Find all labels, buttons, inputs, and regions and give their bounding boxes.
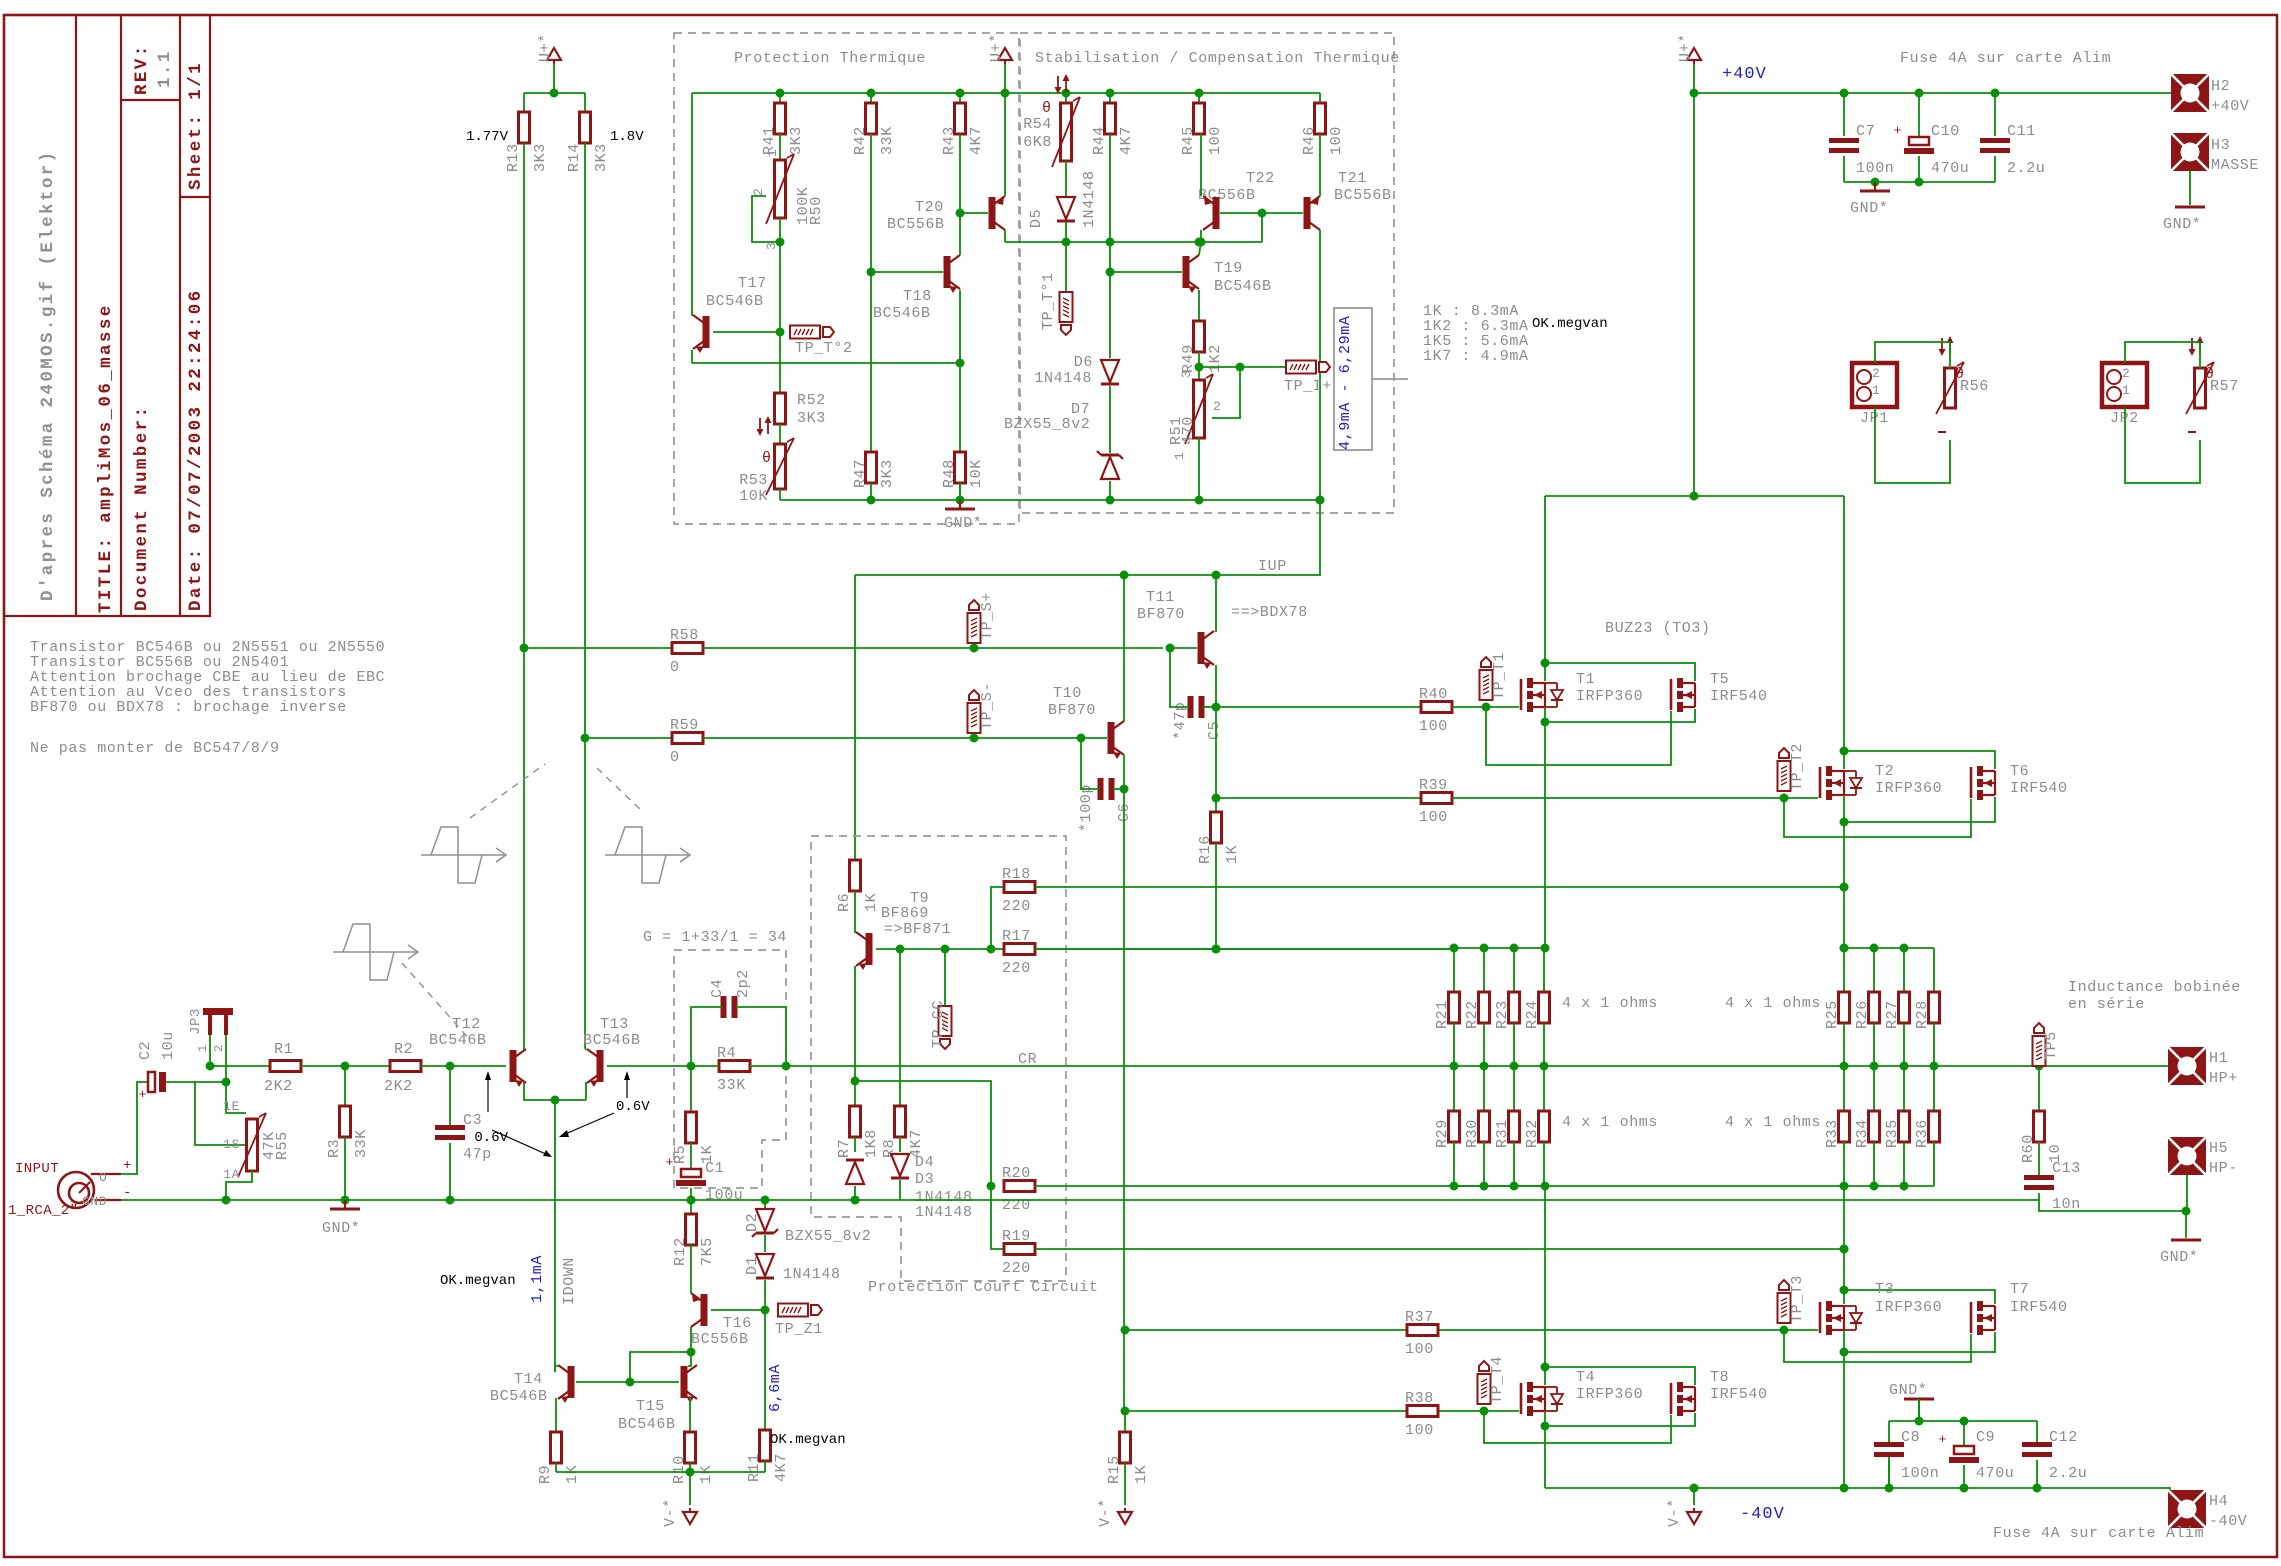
- svg-text:TP_T°1: TP_T°1: [1040, 272, 1057, 330]
- svg-text:1A: 1A: [223, 1167, 240, 1182]
- svg-text:220: 220: [1002, 898, 1031, 915]
- wire: [523, 93, 525, 112]
- power symbol V-* (R15): [1118, 1512, 1132, 1524]
- diode D8 (under R7): [854, 1137, 856, 1152]
- svg-text:R35: R35: [1884, 1119, 1901, 1148]
- svg-text:R5: R5: [672, 1145, 689, 1164]
- thermistor R56: [1941, 338, 1943, 354]
- svg-text:HP-: HP-: [2209, 1160, 2238, 1177]
- svg-text:GND*: GND*: [1889, 1382, 1927, 1399]
- svg-text:6K8: 6K8: [1023, 134, 1052, 151]
- resistor R28: [1933, 948, 1935, 992]
- svg-text:100: 100: [1419, 718, 1448, 735]
- wire +40V rail: [1693, 64, 1695, 496]
- wire R12 to T16: [690, 1245, 692, 1290]
- resistor R9: [551, 1432, 562, 1463]
- wire T3-T7 top: [1844, 1290, 1995, 1304]
- svg-text:R52: R52: [797, 392, 826, 409]
- svg-text:1K8: 1K8: [863, 1129, 880, 1158]
- wire T13 collector: [584, 143, 586, 1048]
- svg-text:TP_Z1: TP_Z1: [775, 1321, 823, 1338]
- svg-text:1N4148: 1N4148: [1034, 370, 1092, 387]
- wire R39 to T2 gate: [1452, 797, 1818, 799]
- wire T3 column: [1843, 1186, 1845, 1304]
- wire R51 down: [1198, 438, 1200, 500]
- resistor R37: [1407, 1325, 1438, 1336]
- wire C6 left: [1081, 738, 1099, 789]
- svg-text:TITLE: ampliMos_06_masse: TITLE: ampliMos_06_masse: [96, 303, 116, 613]
- wire T4 gate: [1484, 1410, 1519, 1412]
- svg-text:1N4148: 1N4148: [1081, 170, 1098, 228]
- svg-text:H1: H1: [2209, 1050, 2228, 1067]
- svg-text:OK.megvan: OK.megvan: [1532, 316, 1608, 332]
- svg-text:1N4148: 1N4148: [915, 1204, 973, 1221]
- svg-text:C2: C2: [137, 1041, 154, 1060]
- svg-text:D'apres Schéma 240MOS.gif (Ele: D'apres Schéma 240MOS.gif (Elektor): [38, 149, 58, 601]
- svg-text:IUP: IUP: [1258, 558, 1287, 575]
- wire R16 down: [1215, 843, 1217, 949]
- svg-text:+: +: [139, 1087, 147, 1102]
- svg-text:GND*: GND*: [944, 515, 982, 532]
- wire box left: [691, 93, 693, 310]
- svg-text:1.77V: 1.77V: [466, 129, 509, 145]
- svg-text:R31: R31: [1494, 1119, 1511, 1148]
- wire T3 source down: [1843, 1352, 1845, 1488]
- pad H5: [2168, 1137, 2206, 1175]
- svg-text:4 x 1 ohms: 4 x 1 ohms: [1725, 995, 1821, 1012]
- svg-text:O: O: [99, 1170, 107, 1185]
- test point TP_S-: [968, 703, 981, 733]
- wire T2 column: [1843, 496, 1845, 769]
- svg-text:Stabilisation / Compensation T: Stabilisation / Compensation Thermique: [1035, 50, 1400, 67]
- wire R1 row: [210, 1065, 270, 1067]
- svg-text:+40V: +40V: [1722, 65, 1767, 84]
- svg-text:Fuse 4A sur carte Alim: Fuse 4A sur carte Alim: [1900, 50, 2111, 67]
- svg-text:1: 1: [2122, 383, 2130, 398]
- trimmer R53 (thermistor): [779, 424, 781, 444]
- svg-text:2: 2: [212, 1044, 226, 1052]
- svg-text:==>BDX78: ==>BDX78: [1231, 604, 1308, 621]
- wire JP3 pins: [209, 1035, 211, 1066]
- wire pot taps: [195, 1082, 246, 1145]
- wire R59 row: [585, 737, 672, 739]
- svg-text:R30: R30: [1464, 1119, 1481, 1148]
- capacitor C2 (electrolytic): [148, 1072, 155, 1092]
- svg-text:T15: T15: [636, 1398, 665, 1415]
- svg-text:R11: R11: [746, 1453, 763, 1482]
- svg-text:470: 470: [1180, 416, 1197, 445]
- svg-text:2K2: 2K2: [384, 1078, 413, 1095]
- svg-text:10K: 10K: [968, 459, 985, 488]
- svg-text:R29: R29: [1434, 1119, 1451, 1148]
- svg-text:R59: R59: [670, 717, 699, 734]
- svg-text:C12: C12: [2049, 1429, 2078, 1446]
- svg-text:IRFP360: IRFP360: [1875, 1299, 1942, 1316]
- svg-text:100u: 100u: [705, 1187, 743, 1204]
- wire T2 source: [1843, 795, 1845, 822]
- resistor R44: [1109, 93, 1111, 103]
- svg-text:JP3: JP3: [188, 1008, 204, 1035]
- wire -40V rail: [1545, 1488, 2170, 1492]
- svg-text:T17: T17: [738, 275, 767, 292]
- svg-text:4,9mA - 6,29mA: 4,9mA - 6,29mA: [1337, 316, 1354, 450]
- svg-text:R49: R49: [1180, 344, 1197, 373]
- svg-text:BC546B: BC546B: [1214, 278, 1272, 295]
- wire C4 loop: [691, 1007, 722, 1066]
- wire T16 collector: [690, 1327, 692, 1352]
- resistor R43: [959, 93, 961, 103]
- wire T1 column: [1544, 496, 1546, 681]
- resistor R42: [870, 93, 872, 103]
- svg-text:R1: R1: [274, 1041, 293, 1058]
- test point TP_T2: [1778, 761, 1791, 791]
- wire R40 to gates: [1452, 706, 1519, 708]
- capacitor C1 (electrolytic): [690, 1143, 692, 1168]
- svg-text:Sheet: 1/1: Sheet: 1/1: [186, 61, 206, 190]
- wire R17 right: [1035, 948, 1454, 950]
- wire C5 left to base node: [1170, 648, 1189, 707]
- wire T21 collector to IUP: [855, 230, 1320, 575]
- resistor R60: [2038, 1066, 2040, 1111]
- wire T2 source down: [1843, 822, 1845, 948]
- pad H3: [2171, 133, 2209, 171]
- svg-text:C13: C13: [2052, 1160, 2081, 1177]
- svg-text:R21: R21: [1434, 1000, 1451, 1029]
- svg-text:1N4148: 1N4148: [783, 1266, 841, 1283]
- wire T12 collector: [523, 143, 525, 1048]
- jumper JP2: [2102, 363, 2147, 407]
- svg-text:T5: T5: [1710, 671, 1729, 688]
- wire T9 base: [876, 948, 900, 950]
- svg-text:D1: D1: [744, 1256, 761, 1275]
- svg-text:T3: T3: [1875, 1281, 1894, 1298]
- power symbol V-*: [689, 1472, 691, 1505]
- svg-text:Inductance bobinée: Inductance bobinée: [2068, 979, 2241, 996]
- svg-text:Protection Thermique: Protection Thermique: [734, 50, 926, 67]
- wire R58 row: [524, 647, 672, 649]
- svg-text:R6: R6: [836, 893, 853, 912]
- svg-text:220: 220: [1002, 960, 1031, 977]
- resistor R7: [854, 1081, 856, 1106]
- test point TP_CC: [944, 949, 946, 1006]
- svg-text:R34: R34: [1854, 1119, 1871, 1148]
- svg-text:4 x 1 ohms: 4 x 1 ohms: [1562, 995, 1658, 1012]
- clipping icon C: [333, 951, 416, 953]
- wire emitter rail: [692, 362, 960, 364]
- resistor R11: [760, 1430, 771, 1461]
- wire T13 collector: [585, 1048, 586, 1050]
- wire D1 to TP_Z1: [764, 1280, 766, 1310]
- resistor R25: [1843, 948, 1845, 992]
- wire R3 down: [344, 1137, 346, 1200]
- wire +40V drop: [1545, 495, 1844, 497]
- wire jumper loop: [1875, 342, 1950, 368]
- svg-text:CR: CR: [1018, 1051, 1037, 1068]
- svg-text:2: 2: [1213, 399, 1221, 414]
- svg-text:D5: D5: [1028, 209, 1045, 228]
- wire T1 source: [1544, 707, 1546, 722]
- svg-text:TP_T°2: TP_T°2: [795, 340, 853, 357]
- resistor R18: [991, 887, 1004, 949]
- svg-text:100: 100: [1328, 126, 1345, 155]
- svg-text:R10: R10: [671, 1455, 688, 1484]
- svg-text:R4: R4: [717, 1045, 736, 1062]
- svg-text:T14: T14: [514, 1371, 543, 1388]
- svg-text:100n: 100n: [1901, 1465, 1939, 1482]
- svg-text:BZX55_8v2: BZX55_8v2: [785, 1228, 871, 1245]
- wire T19 collector: [1199, 242, 1201, 255]
- svg-text:0.6V: 0.6V: [474, 1130, 508, 1146]
- svg-text:en série: en série: [2068, 996, 2145, 1013]
- test point TP_T°2: [790, 326, 820, 339]
- resistor R23: [1513, 948, 1515, 992]
- trimmer R54 (thermistor): [1065, 93, 1067, 103]
- svg-text:BC546B: BC546B: [618, 1416, 676, 1433]
- svg-text:+: +: [123, 1158, 132, 1174]
- svg-text:1.8V: 1.8V: [610, 129, 644, 145]
- wire R4 right to main: [786, 1065, 1454, 1067]
- wire C1 down: [690, 1188, 692, 1200]
- Protection Court Circuit box: [811, 836, 1066, 1281]
- resistor R35: [1903, 1066, 1905, 1111]
- power symbol V-* (rail): [1693, 1488, 1695, 1505]
- svg-text:1_RCA_2": 1_RCA_2": [8, 1203, 78, 1219]
- resistor R22: [1483, 948, 1485, 992]
- svg-text:10K: 10K: [739, 488, 768, 505]
- wire R19 right: [1035, 1248, 1844, 1250]
- svg-text:R43: R43: [941, 126, 958, 155]
- wire RCA gnd: [95, 1199, 121, 1201]
- svg-text:*100p: *100p: [1078, 784, 1095, 832]
- wire T1-T5 top: [1545, 663, 1695, 681]
- wire T19 emitter: [1198, 290, 1200, 321]
- RCA connector X1: [58, 1172, 94, 1208]
- wire R4 leads: [691, 1065, 719, 1067]
- svg-text:R33: R33: [1824, 1119, 1841, 1148]
- resistor R30: [1483, 1066, 1485, 1111]
- svg-text:3K3: 3K3: [593, 143, 610, 172]
- svg-text:1K7 : 4.9mA: 1K7 : 4.9mA: [1423, 348, 1529, 365]
- svg-text:C4: C4: [709, 979, 726, 998]
- wire D7 down: [1109, 481, 1111, 500]
- wire T4-T8 top: [1545, 1367, 1695, 1385]
- svg-text:2.2u: 2.2u: [2049, 1465, 2087, 1482]
- wire bottom rail (thermal): [779, 489, 781, 500]
- svg-text:BF870: BF870: [1137, 606, 1185, 623]
- ground GND* (thermal): [959, 500, 961, 509]
- svg-text:3K3: 3K3: [788, 126, 805, 155]
- resistor R48: [955, 452, 966, 483]
- svg-text:R2: R2: [394, 1041, 413, 1058]
- wire R50 wiper: [752, 196, 780, 242]
- clipping icon A: [421, 854, 504, 856]
- wire CR rail right: [1454, 1065, 2172, 1067]
- svg-text:BC546B: BC546B: [706, 293, 764, 310]
- resistor R32: [1543, 1066, 1545, 1111]
- svg-text:R19: R19: [1002, 1228, 1031, 1245]
- svg-text:TP_T2: TP_T2: [1789, 743, 1806, 791]
- wire T20 base: [960, 212, 988, 214]
- resistor R10: [685, 1432, 696, 1463]
- wire T15 collector: [688, 1352, 691, 1366]
- jumper JP1: [1852, 363, 1897, 407]
- svg-text:TP_I+: TP_I+: [1284, 378, 1332, 395]
- svg-text:0: 0: [670, 659, 680, 676]
- svg-text:4 x 1 ohms: 4 x 1 ohms: [1562, 1114, 1658, 1131]
- svg-text:R20: R20: [1002, 1165, 1031, 1182]
- svg-text:R16: R16: [1197, 835, 1214, 864]
- capacitor C11: [1994, 93, 1996, 136]
- resistor R19: [991, 1186, 1004, 1249]
- wire T4 source down to -40V rail: [1544, 1426, 1546, 1488]
- resistor R15: [1124, 1411, 1126, 1432]
- wire D6-D7: [1109, 386, 1111, 453]
- svg-text:2: 2: [2122, 366, 2130, 381]
- svg-text:47p: 47p: [463, 1146, 492, 1163]
- power symbol V+* (right): [1687, 48, 1701, 60]
- svg-text:BC546B: BC546B: [873, 305, 931, 322]
- wire T2-T6 top: [1844, 751, 1995, 769]
- svg-text:R23: R23: [1494, 1000, 1511, 1029]
- wire gate return T7: [1784, 1330, 1971, 1362]
- wire T20 emitter: [1004, 93, 1006, 196]
- svg-text:33K: 33K: [879, 126, 896, 155]
- svg-text:HP+: HP+: [2209, 1070, 2238, 1087]
- svg-text:BF869: BF869: [881, 905, 929, 922]
- svg-text:1K: 1K: [1133, 1465, 1150, 1484]
- svg-text:1K2: 1K2: [1207, 344, 1224, 373]
- wire T3 gate: [1784, 1329, 1818, 1331]
- svg-text:T11: T11: [1146, 589, 1175, 606]
- svg-text:T22: T22: [1246, 170, 1275, 187]
- capacitor C9 (electrolytic): [1963, 1421, 1965, 1445]
- svg-text:R55: R55: [274, 1131, 291, 1160]
- svg-text:T13: T13: [600, 1016, 629, 1033]
- wire R44 down: [1109, 134, 1111, 358]
- svg-text:470u: 470u: [1976, 1465, 2014, 1482]
- wire T22-T21 base link: [1220, 212, 1303, 214]
- wire C6 right: [1113, 788, 1124, 790]
- svg-text:D3: D3: [915, 1171, 934, 1188]
- mosfet T5: [1670, 679, 1673, 710]
- svg-text:R36: R36: [1914, 1119, 1931, 1148]
- svg-text:TP_S-: TP_S-: [979, 682, 996, 730]
- svg-text:D6: D6: [1074, 354, 1093, 371]
- wire T20 collector: [1004, 230, 1006, 242]
- svg-text:C5: C5: [1206, 721, 1223, 740]
- svg-text:T1: T1: [1576, 671, 1595, 688]
- svg-text:R28: R28: [1914, 1000, 1931, 1029]
- wire center vertical: [1123, 789, 1125, 1411]
- test point TP_T4: [1478, 1374, 1491, 1404]
- svg-text:R3: R3: [326, 1139, 343, 1158]
- wire T1 drain: [1543, 682, 1545, 684]
- svg-text:OK.megvan: OK.megvan: [770, 1432, 846, 1448]
- resistor R14: [580, 112, 591, 143]
- mosfet T8: [1670, 1383, 1673, 1414]
- wire T19 base: [1110, 271, 1182, 273]
- Protection Thermique box: [674, 33, 1019, 524]
- Stabilisation box: [1020, 33, 1394, 513]
- wire jumper loop: [2125, 342, 2200, 368]
- test point TP_S+: [968, 613, 981, 643]
- svg-text:R17: R17: [1002, 928, 1031, 945]
- pad H1: [2168, 1047, 2206, 1085]
- wire R43 to T20 base / T18 collector: [959, 134, 961, 250]
- svg-text:R18: R18: [1002, 866, 1031, 883]
- svg-text:-40V: -40V: [2209, 1513, 2247, 1530]
- wire T16 emitter: [690, 1290, 692, 1294]
- svg-text:TP_CC: TP_CC: [930, 1000, 947, 1048]
- svg-text:G = 1+33/1 = 34: G = 1+33/1 = 34: [643, 929, 787, 946]
- wire gate return T8: [1484, 1411, 1671, 1443]
- svg-text:T18: T18: [903, 288, 932, 305]
- ground GND* (H3): [2175, 206, 2205, 209]
- svg-text:U+*: U+*: [988, 33, 1005, 62]
- svg-text:470u: 470u: [1931, 160, 1969, 177]
- wire tail current: [554, 1100, 556, 1372]
- capacitor C12: [2036, 1421, 2038, 1442]
- svg-text:V-*: V-*: [1666, 1498, 1683, 1527]
- svg-text:2: 2: [1872, 366, 1880, 381]
- resistor R21: [1453, 948, 1455, 992]
- svg-text:R14: R14: [566, 143, 583, 172]
- svg-text:C8: C8: [1901, 1429, 1920, 1446]
- svg-text:T7: T7: [2010, 1281, 2029, 1298]
- wire R58 to TP_S+ to T11 base: [703, 647, 1163, 649]
- svg-text:R24: R24: [1524, 1000, 1541, 1029]
- ground GND* (top): [1874, 182, 1876, 191]
- svg-text:U+*: U+*: [1677, 33, 1694, 62]
- svg-text:R45: R45: [1180, 126, 1197, 155]
- test point TP5: [2033, 1036, 2046, 1066]
- svg-text:R46: R46: [1301, 126, 1318, 155]
- svg-text:U+*: U+*: [537, 33, 554, 62]
- svg-text:+: +: [666, 1155, 674, 1170]
- wire T10 emitter: [1123, 755, 1125, 789]
- svg-text:2.2u: 2.2u: [2007, 160, 2045, 177]
- svg-text:1E: 1E: [223, 1099, 240, 1114]
- wire H3 to gnd: [2189, 171, 2191, 205]
- wire mid rail 949: [900, 948, 1454, 950]
- wire T9 collector: [854, 931, 856, 933]
- wire T4 source: [1544, 1411, 1546, 1426]
- svg-text:BF870 ou BDX78 : brochage inve: BF870 ou BDX78 : brochage inverse: [30, 699, 347, 716]
- thermistor R57: [2191, 338, 2193, 354]
- wire C5 right: [1203, 706, 1216, 708]
- resistor R58: [672, 643, 703, 654]
- svg-text:C9: C9: [1976, 1429, 1995, 1446]
- wire R1-R2: [301, 1065, 390, 1067]
- wire T3 source: [1843, 1330, 1845, 1352]
- svg-text:GND: GND: [82, 1194, 107, 1209]
- wire T15 emitter: [689, 1398, 691, 1432]
- title block: [4, 15, 210, 616]
- wire C13 down: [2039, 1193, 2186, 1211]
- wire T12 emitter: [524, 1082, 586, 1100]
- wire R55 bottom: [226, 1171, 252, 1200]
- current range bracket: [1334, 308, 1372, 450]
- svg-text:4K7: 4K7: [968, 126, 985, 155]
- svg-text:Date: 07/07/2003 22:24:06: Date: 07/07/2003 22:24:06: [186, 288, 206, 611]
- wire T13 emitter: [585, 1082, 587, 1100]
- svg-text:1: 1: [1172, 452, 1187, 460]
- svg-text:H3: H3: [2211, 137, 2230, 154]
- resistor R16: [1215, 707, 1217, 812]
- svg-text:IRF540: IRF540: [1710, 1386, 1768, 1403]
- resistor R33: [1843, 1066, 1845, 1111]
- svg-text:T19: T19: [1214, 260, 1243, 277]
